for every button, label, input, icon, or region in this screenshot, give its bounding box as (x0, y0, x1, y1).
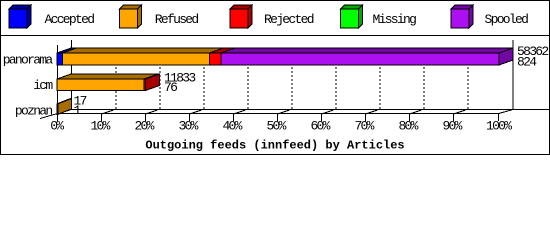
gridline 10% (115, 50, 117, 109)
x-axis front bottom line (57, 113, 499, 115)
gridline 40% (247, 50, 249, 109)
tick 80% (409, 114, 411, 121)
tick 100% (498, 114, 500, 121)
bar panorama: orange front segment (63, 53, 210, 65)
legend cube Rejected (red) front face (230, 9, 248, 28)
svg-text:100%: 100% (486, 119, 512, 134)
bar poznan: orange side face (58, 99, 72, 115)
right boundary line (100% back) (512, 40, 514, 109)
legend cube Rejected (red) top face (230, 5, 252, 9)
svg-text:10%: 10% (90, 119, 110, 134)
legend cube Refused (orange) top face (120, 5, 142, 9)
svg-text:30%: 30% (178, 119, 198, 134)
legend cube Spooled (purple) side face (469, 5, 473, 28)
svg-text:90%: 90% (442, 119, 462, 134)
tick 30% (189, 114, 191, 121)
legend cube Refused (orange) side face (138, 5, 142, 28)
gridline 20% (159, 50, 161, 109)
svg-text:Refused: Refused (155, 12, 199, 27)
svg-text:70%: 70% (354, 119, 374, 134)
svg-text:Spooled: Spooled (485, 12, 529, 27)
bar icm: orange front segment (57, 79, 144, 91)
x-axis left corner diagonal extension (40, 110, 72, 119)
bar panorama: blue top face (57, 48, 77, 53)
bar panorama: red front segment (209, 53, 221, 65)
legend cube Refused (orange) front face (120, 9, 138, 28)
legend cube Missing (green) top face (341, 5, 363, 9)
legend cube Spooled (purple) front face (451, 9, 469, 28)
svg-text:80%: 80% (398, 119, 418, 134)
bar panorama: purple top face (221, 48, 513, 53)
gridline 50% (291, 50, 293, 109)
y-axis front line (57, 45, 59, 122)
y-axis back line (0% back) (71, 40, 73, 109)
svg-text:Rejected: Rejected (264, 12, 314, 27)
bar icm: orange top face (57, 74, 158, 79)
svg-text:20%: 20% (134, 119, 154, 134)
legend cube Accepted (blue) front face (9, 9, 27, 28)
legend cube Spooled (purple) top face (451, 5, 473, 9)
legend divider line (1, 35, 549, 37)
tick 10% (101, 114, 103, 121)
legend cube Missing (green) front face (341, 9, 359, 28)
tick 70% (365, 114, 367, 121)
gridline 60% (335, 50, 337, 109)
tick 0% (57, 114, 59, 121)
gridline 70% (379, 50, 381, 109)
svg-text:60%: 60% (310, 119, 330, 134)
svg-text:0%: 0% (50, 119, 64, 134)
svg-text:76: 76 (164, 80, 177, 95)
svg-text:Missing: Missing (373, 12, 417, 27)
svg-text:poznan: poznan (15, 103, 53, 118)
gridline 30% (203, 50, 205, 109)
tick 40% (233, 114, 235, 121)
bar panorama: purple front segment (221, 53, 499, 65)
svg-text:50%: 50% (266, 119, 286, 134)
tick 20% (145, 114, 147, 121)
bar panorama: orange top face (63, 48, 224, 53)
svg-text:824: 824 (517, 55, 537, 70)
bar icm: red side face (146, 74, 160, 91)
bar poznan: orange front sliver (57, 104, 58, 115)
svg-text:40%: 40% (222, 119, 242, 134)
bar icm: red top face (144, 74, 160, 79)
legend cube Rejected (red) side face (248, 5, 252, 28)
bar icm: red front segment (144, 79, 146, 91)
legend cube Accepted (blue) side face (27, 5, 31, 28)
gridline 90% (467, 50, 469, 109)
tick 90% (453, 114, 455, 121)
legend cube Missing (green) side face (359, 5, 363, 28)
bar panorama: red top face (209, 48, 235, 53)
svg-text:panorama: panorama (3, 52, 54, 67)
x-axis right corner diagonal (499, 110, 513, 114)
tick 60% (321, 114, 323, 121)
bar panorama: blue front segment (57, 53, 63, 65)
x-axis back bottom line (72, 109, 550, 111)
bar poznan: orange top face (57, 99, 72, 104)
svg-text:Outgoing feeds (innfeed) by Ar: Outgoing feeds (innfeed) by Articles (145, 139, 404, 153)
svg-text:Accepted: Accepted (45, 12, 95, 27)
gridline 80% (423, 50, 425, 109)
legend cube Accepted (blue) top face (9, 5, 31, 9)
bar panorama: purple side face (499, 48, 513, 65)
image border frame (1, 1, 550, 155)
tick 50% (277, 114, 279, 121)
svg-text:icm: icm (33, 78, 53, 93)
